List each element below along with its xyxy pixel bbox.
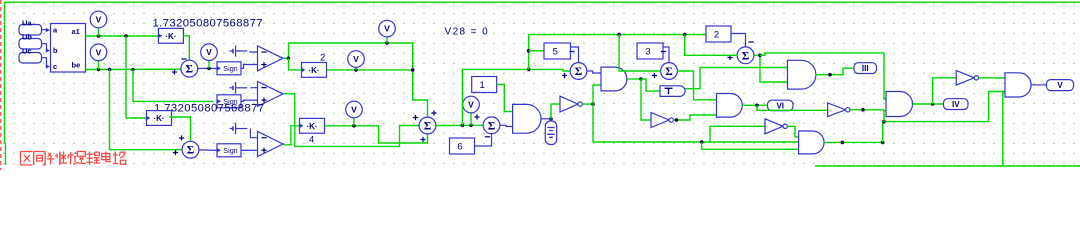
svg-text:Σ: Σ bbox=[488, 120, 496, 132]
svg-text:V: V bbox=[351, 105, 357, 115]
svg-text:Ub: Ub bbox=[22, 33, 32, 42]
svg-text:·K·: ·K· bbox=[306, 122, 317, 131]
svg-text:V: V bbox=[96, 15, 102, 25]
svg-text:·K·: ·K· bbox=[165, 32, 176, 41]
svg-text:4: 4 bbox=[309, 135, 314, 146]
svg-text:V: V bbox=[353, 54, 359, 64]
svg-text:V: V bbox=[384, 24, 390, 34]
svg-text:IV: IV bbox=[952, 100, 960, 109]
svg-text:Σ: Σ bbox=[742, 50, 750, 62]
svg-text:a1: a1 bbox=[72, 27, 80, 36]
svg-text:1: 1 bbox=[480, 80, 485, 91]
svg-text:6: 6 bbox=[457, 142, 462, 153]
svg-text:b: b bbox=[53, 46, 58, 55]
svg-text:V28 = 0: V28 = 0 bbox=[445, 27, 490, 38]
svg-text:V: V bbox=[1057, 81, 1063, 90]
svg-text:III: III bbox=[862, 64, 869, 73]
svg-text:be: be bbox=[72, 61, 81, 70]
svg-text:Sign: Sign bbox=[223, 64, 237, 73]
svg-text:·K·: ·K· bbox=[308, 66, 319, 75]
svg-text:V: V bbox=[468, 100, 474, 110]
svg-text:3: 3 bbox=[645, 47, 650, 58]
svg-text:Σ: Σ bbox=[424, 121, 432, 133]
svg-text:Ua: Ua bbox=[22, 19, 32, 28]
svg-text:VI: VI bbox=[776, 101, 784, 110]
svg-text:Σ: Σ bbox=[187, 145, 195, 157]
svg-text:V: V bbox=[206, 47, 212, 57]
svg-text:2: 2 bbox=[714, 30, 719, 41]
svg-text:Σ: Σ bbox=[575, 66, 583, 78]
svg-text:c: c bbox=[53, 62, 57, 71]
svg-text:Σ: Σ bbox=[186, 64, 194, 76]
svg-text:V: V bbox=[96, 47, 102, 57]
svg-text:5: 5 bbox=[553, 47, 558, 58]
svg-text:1.732050807568877: 1.732050807568877 bbox=[153, 17, 263, 29]
svg-text:Sign: Sign bbox=[223, 146, 237, 155]
svg-text:·K·: ·K· bbox=[153, 114, 164, 123]
svg-text:Uc: Uc bbox=[22, 47, 32, 56]
svg-text:2: 2 bbox=[320, 53, 325, 64]
svg-text:Σ: Σ bbox=[665, 66, 673, 78]
